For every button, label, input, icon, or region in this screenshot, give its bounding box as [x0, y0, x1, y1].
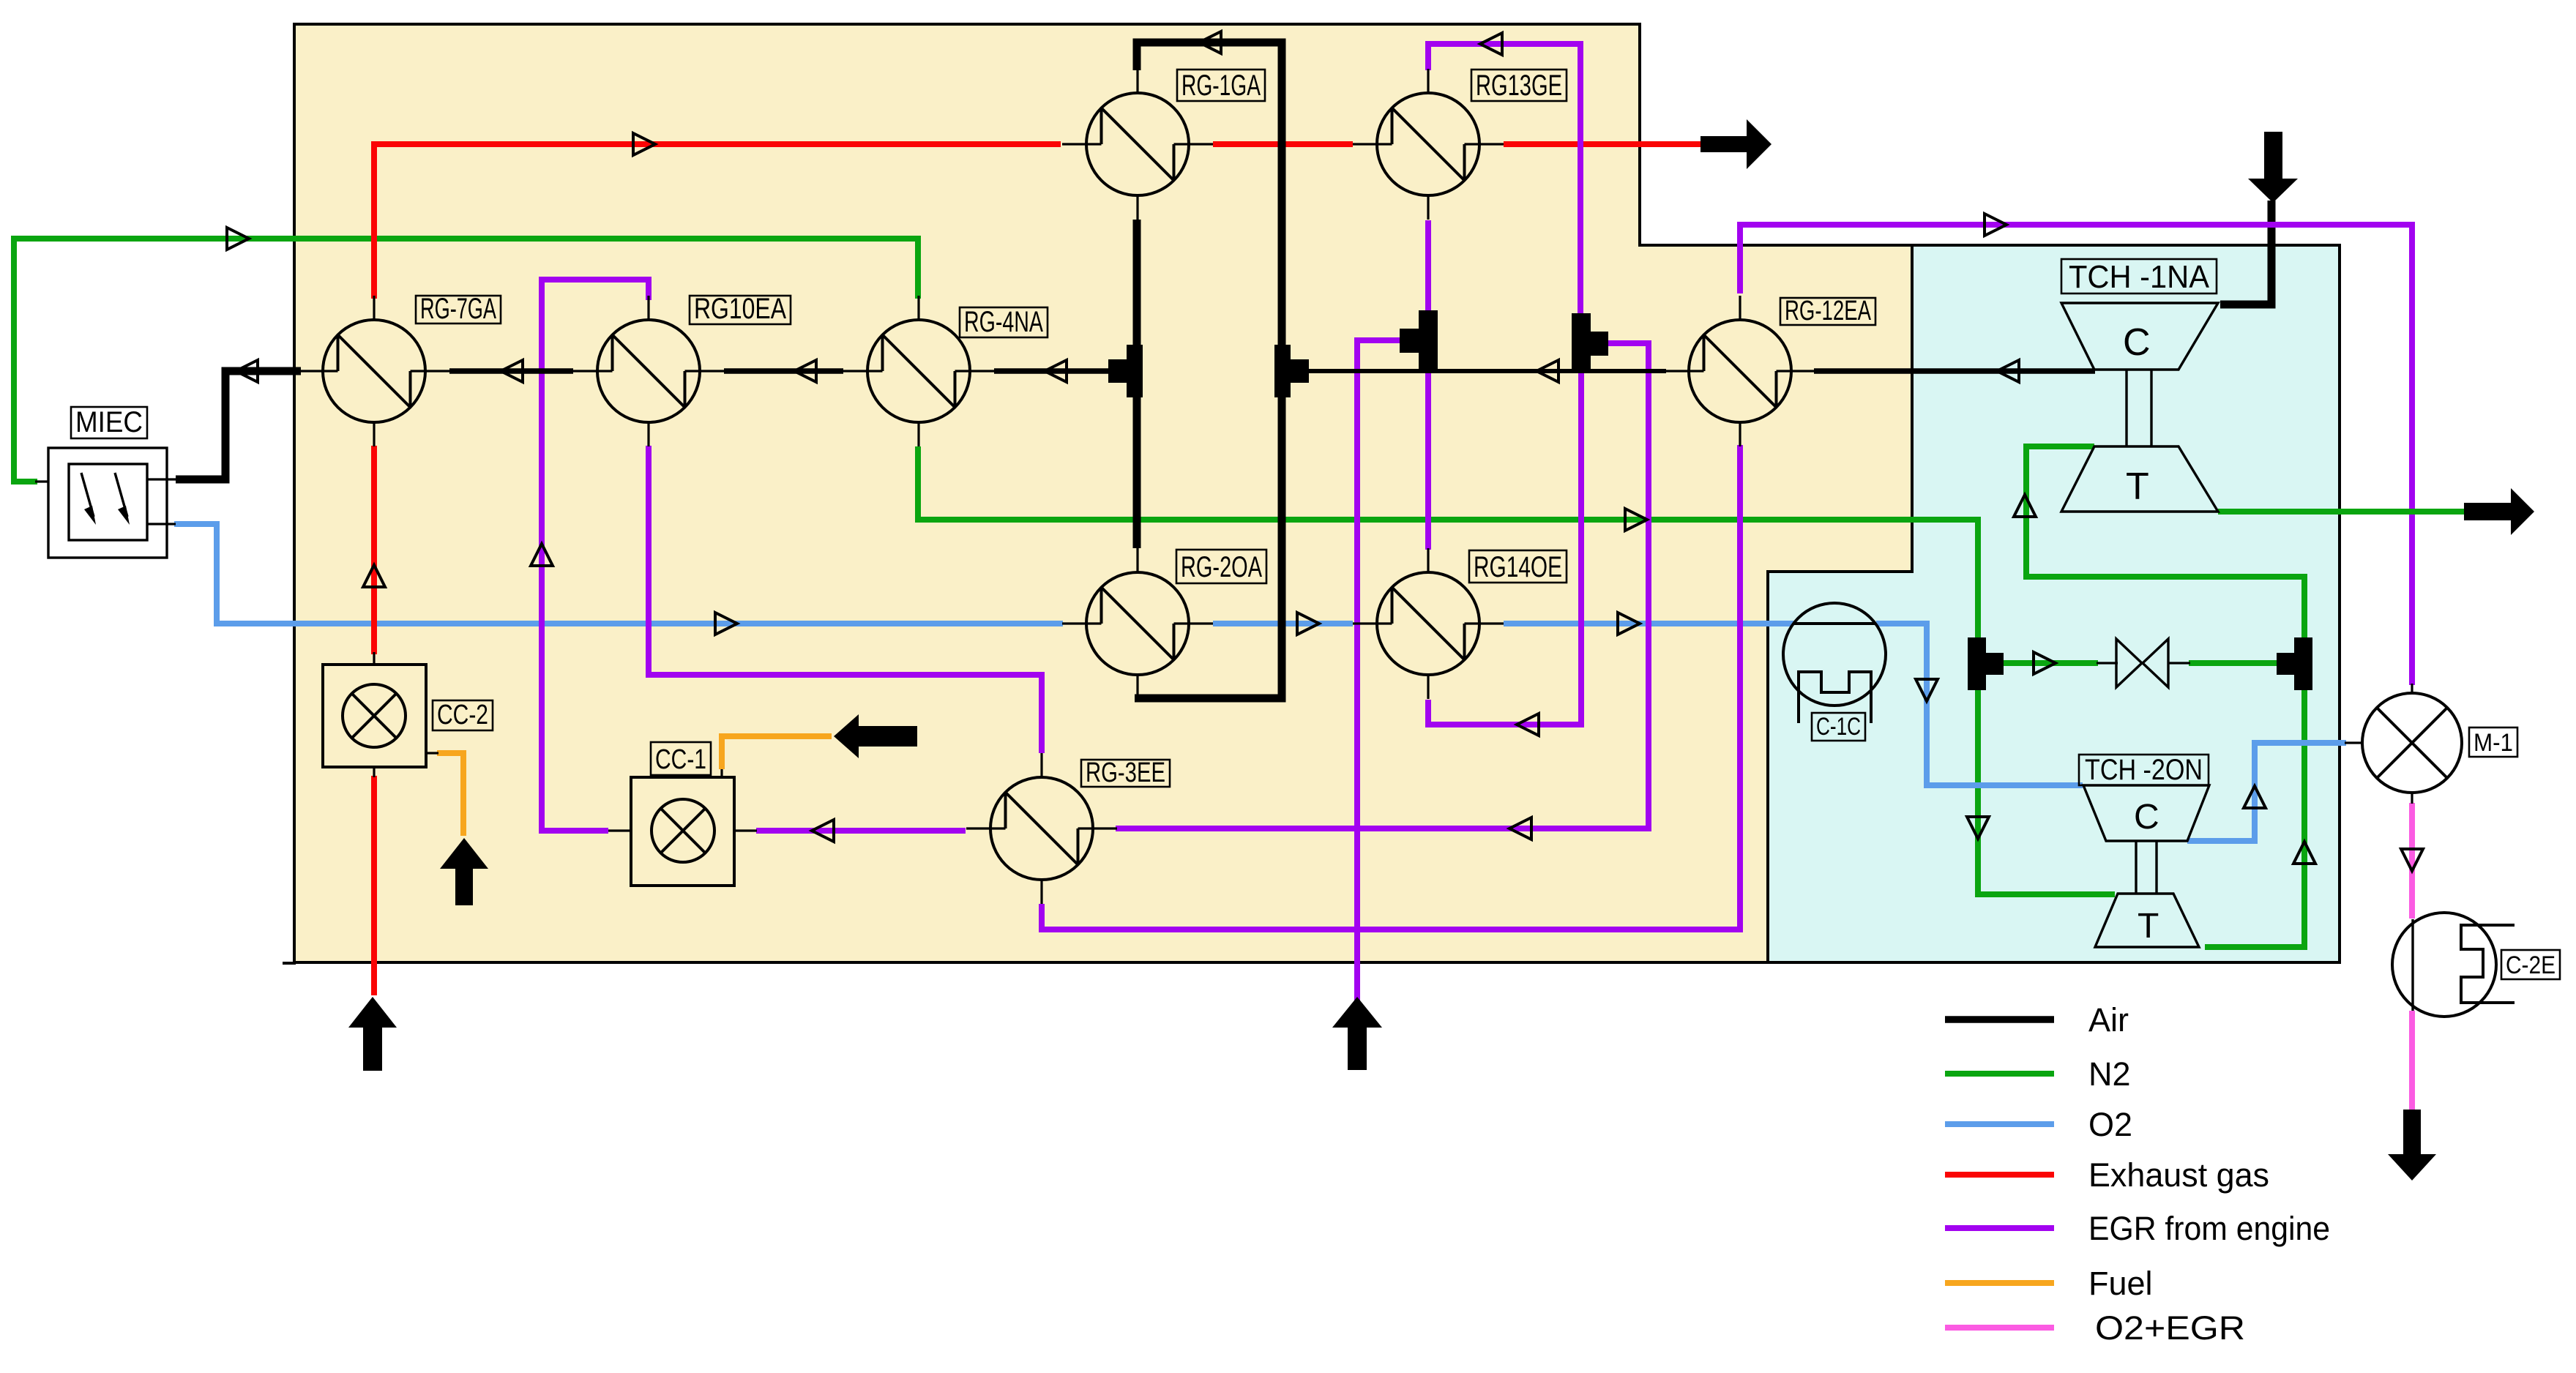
- label RG-12EA: [1780, 296, 1875, 326]
- arrow air left into RG-12EA line: [1537, 360, 1558, 382]
- main process region (beige): [294, 24, 1912, 962]
- label C-2E: [2501, 950, 2560, 979]
- legend line O2: [1945, 1121, 2054, 1127]
- wire air tee to RG-12EA: [1290, 369, 1666, 373]
- engine C-2E: [2392, 913, 2515, 1017]
- block arrow EGR inlet: [1332, 997, 1382, 1070]
- wire N2 RG-4NA bottom to TCH-2ON turbine inlet: [918, 446, 2115, 894]
- mixer M-1: [2345, 684, 2462, 804]
- arrow air left into RG-10EA: [794, 360, 816, 382]
- arrow N2 up to TCH-1NA turbine: [2014, 495, 2036, 517]
- label C-1C: [1812, 713, 1865, 741]
- svg-text:RG-7GA: RG-7GA: [420, 293, 496, 325]
- svg-text:N2: N2: [2088, 1055, 2131, 1093]
- wire exhaust CC-2 to RG-7GA bottom: [371, 446, 377, 654]
- wire air RG-7GA RG-10EA: [449, 368, 573, 374]
- wire exhaust RG-1GA to RG-13GE: [1213, 141, 1353, 147]
- heat exchanger RG-14OE: [1353, 548, 1504, 699]
- wire N2 TCH-1NA turbine outlet: [2218, 509, 2465, 515]
- svg-text:M-1: M-1: [2474, 729, 2513, 757]
- arrow air left into RG-7GA: [501, 360, 523, 382]
- svg-text:RG-12EA: RG-12EA: [1785, 296, 1871, 326]
- label RG-1GA: [1177, 70, 1265, 102]
- arrow N2 right on long line: [1625, 509, 1647, 531]
- legend line Exhaust gas: [1945, 1172, 2054, 1178]
- label CC-2: [433, 700, 493, 730]
- svg-text:RG14OE: RG14OE: [1474, 551, 1562, 583]
- label CC-1: [651, 742, 711, 775]
- svg-text:RG-2OA: RG-2OA: [1181, 551, 1262, 583]
- junction N2 tee left: [1968, 637, 2004, 690]
- label TCH-1NA: [2061, 259, 2217, 295]
- arrow EGR left into RG-3EE: [1509, 818, 1531, 839]
- wire N2 MIEC to RG-4NA top: [14, 239, 918, 482]
- wire air RG-12EA to TCH-1NA compressor: [1814, 368, 2095, 374]
- arrow O2+EGR down to C-2E: [2401, 849, 2423, 871]
- svg-text:TCH -1NA: TCH -1NA: [2069, 259, 2210, 295]
- turbocharger region (cyan): [1768, 245, 2340, 962]
- svg-text:CC-2: CC-2: [437, 700, 488, 730]
- wire fuel to CC-1: [722, 736, 832, 769]
- svg-text:RG13GE: RG13GE: [1476, 70, 1562, 102]
- heat exchanger RG-10EA: [573, 296, 724, 446]
- heat exchanger RG-1GA: [1062, 69, 1213, 220]
- wire O2 RG-2OA to RG-14OE: [1213, 621, 1353, 626]
- heat exchanger RG-3EE: [966, 753, 1117, 904]
- heat exchanger RG-12EA: [1665, 296, 1815, 446]
- wire EGR RG-3EE bottom to RG-12EA bottom: [1042, 445, 1740, 929]
- svg-text:RG-1GA: RG-1GA: [1181, 70, 1261, 102]
- wire EGR tee up to RG-13GE bottom: [1425, 220, 1431, 310]
- label RG-7GA: [416, 293, 501, 325]
- heat exchanger RG-7GA: [299, 296, 449, 446]
- junction EGR tee right: [1572, 313, 1608, 373]
- block arrow O2+EGR outlet: [2388, 1110, 2436, 1181]
- wire N2 valve line left: [2004, 660, 2098, 666]
- combustion chamber CC-2: [323, 652, 438, 777]
- svg-text:C: C: [2123, 321, 2151, 364]
- wire EGR tee down to RG-14OE bottom: [1428, 372, 1581, 725]
- legend line EGR from engine: [1945, 1225, 2054, 1231]
- wire exhaust RG-13GE to outlet: [1504, 141, 1706, 147]
- svg-text:CC-1: CC-1: [655, 744, 706, 775]
- svg-text:Air: Air: [2088, 1001, 2129, 1039]
- arrow N2 right on valve line: [2034, 652, 2056, 674]
- wire EGR CC-1 to RG-10EA top: [542, 280, 649, 831]
- arrow air left into RG-12EA: [1997, 360, 2019, 382]
- label RG-3EE: [1081, 757, 1170, 788]
- wire exhaust RG-7GA top to RG-1GA: [374, 144, 1061, 299]
- junction EGR tee left: [1400, 310, 1438, 370]
- arrow O2 right 1: [715, 613, 737, 635]
- wire O2+EGR M-1 to C-2E: [2409, 803, 2415, 919]
- arrow O2 up to M-1: [2244, 786, 2266, 808]
- legend line O2+EGR: [1945, 1325, 2054, 1331]
- svg-text:Exhaust gas: Exhaust gas: [2088, 1156, 2269, 1194]
- wire EGR tee down to RG-14OE top: [1425, 370, 1431, 550]
- wire air RG-2OA bottom loop to RG-1GA top: [1135, 42, 1282, 698]
- svg-text:RG10EA: RG10EA: [694, 293, 786, 325]
- arrow air left on RG-1GA top loop: [1199, 31, 1221, 53]
- label RG14OE: [1469, 550, 1567, 583]
- svg-text:O2: O2: [2088, 1106, 2132, 1143]
- wire O2 MIEC to RG-2OA: [174, 524, 1063, 624]
- arrow O2 down to TCH-2ON compressor: [1916, 679, 1938, 701]
- svg-text:RG-3EE: RG-3EE: [1086, 757, 1165, 788]
- arrow N2 down to TCH-2ON turbine: [1967, 817, 1989, 839]
- wire O2 TCH-2ON compressor out to M-1: [2187, 743, 2346, 841]
- wire N2 TCH-2ON turbine out to valve tee to TCH-1NA turbine inlet: [2026, 446, 2304, 947]
- arrow EGR up to RG-10EA: [531, 544, 553, 566]
- heat exchanger RG-13GE: [1353, 69, 1504, 220]
- svg-text:MIEC: MIEC: [75, 406, 143, 438]
- label RG13GE: [1471, 70, 1567, 102]
- svg-text:C-1C: C-1C: [1816, 713, 1861, 741]
- label RG10EA: [690, 293, 791, 325]
- label TCH-2ON: [2079, 754, 2209, 786]
- block arrow exhaust outlet: [1700, 119, 1772, 169]
- block arrow fuel inlet CC-1: [834, 714, 917, 758]
- arrow N2 up from TCH-2ON turbine: [2293, 842, 2315, 864]
- label RG-2OA: [1176, 550, 1266, 583]
- legend line Fuel: [1945, 1280, 2054, 1286]
- wire O2 RG-14OE to C-1C: [1504, 621, 1793, 626]
- wire air MIEC elbow to RG-7GA: [176, 371, 301, 479]
- wire EGR RG-10EA bottom to RG-3EE top: [649, 446, 1042, 753]
- block arrow exhaust inlet: [348, 997, 397, 1071]
- svg-text:C: C: [2134, 798, 2159, 837]
- label MIEC: [71, 406, 147, 438]
- membrane unit MIEC: [35, 448, 178, 558]
- valve: [2097, 639, 2190, 687]
- wire EGR RG-12EA top to M-1: [1740, 225, 2412, 685]
- wire N2 valve line right: [2189, 660, 2294, 666]
- legend line Air: [1945, 1016, 2054, 1023]
- wire EGR RG-13GE top loop: [1428, 44, 1580, 315]
- block arrow N2 outlet: [2464, 488, 2534, 535]
- wire air inlet to TCH-1NA compressor: [2220, 201, 2271, 304]
- junction air tee 1: [1108, 345, 1143, 397]
- legend line N2: [1945, 1071, 2054, 1077]
- block arrow air inlet: [2248, 132, 2298, 203]
- svg-text:Fuel: Fuel: [2088, 1265, 2153, 1302]
- svg-text:T: T: [2126, 465, 2149, 508]
- wire O2 C-1C to TCH-2ON compressor inlet: [1876, 624, 2083, 785]
- label RG-4NA: [960, 306, 1048, 338]
- wire air RG-1GA bottom to RG-2OA top: [1133, 220, 1141, 548]
- svg-text:O2+EGR: O2+EGR: [2095, 1309, 2245, 1347]
- wire air RG-4NA to tee: [994, 368, 1110, 374]
- label M-1: [2469, 727, 2517, 757]
- wire air RG-10EA RG-4NA: [724, 368, 843, 374]
- arrow air left into RG-4NA: [1045, 360, 1067, 382]
- combustion chamber CC-1: [608, 769, 757, 886]
- arrow air left into MIEC: [236, 360, 258, 382]
- wire EGR tee to RG-3EE right: [1116, 343, 1649, 828]
- arrow EGR left into RG-14OE bottom: [1517, 714, 1539, 736]
- block arrow fuel inlet CC-2: [440, 838, 488, 905]
- arrow EGR left on RG-13GE top loop: [1480, 33, 1502, 55]
- turbocharger TCH-2ON: [2083, 785, 2209, 947]
- arrow exhaust up to RG-7GA: [363, 565, 385, 587]
- svg-text:C-2E: C-2E: [2506, 951, 2556, 979]
- arrow N2 right at left inlet: [227, 228, 249, 250]
- compressor C-1C: [1783, 603, 1886, 723]
- arrow EGR left into CC-1: [812, 820, 834, 842]
- svg-text:EGR from engine: EGR from engine: [2088, 1210, 2330, 1247]
- arrow exhaust right: [633, 133, 655, 155]
- svg-text:T: T: [2138, 907, 2159, 946]
- heat exchanger RG-2OA: [1062, 548, 1213, 699]
- arrow O2 right 2: [1297, 613, 1319, 635]
- arrow O2 right 3: [1618, 613, 1640, 635]
- turbocharger TCH-1NA: [2061, 303, 2218, 512]
- wire O2+EGR C-2E to outlet: [2409, 1011, 2415, 1110]
- junction air tee 2: [1274, 345, 1309, 397]
- svg-text:RG-4NA: RG-4NA: [964, 306, 1043, 338]
- wire EGR engine inlet to tee: [1357, 340, 1403, 1004]
- wire exhaust inlet to CC-2: [371, 776, 377, 995]
- junction N2 tee right: [2277, 637, 2312, 690]
- wire fuel to CC-2: [437, 753, 463, 836]
- heat exchanger RG-4NA: [843, 296, 994, 446]
- border overhang bottom-left: [283, 962, 296, 965]
- wire EGR RG-3EE left to CC-1: [756, 828, 966, 834]
- arrow EGR right to M-1: [1985, 214, 2006, 236]
- svg-text:TCH -2ON: TCH -2ON: [2085, 754, 2203, 786]
